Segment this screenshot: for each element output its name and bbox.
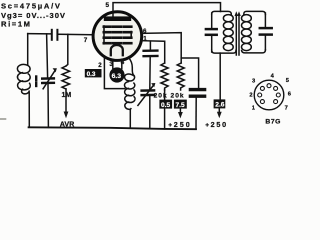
anode plate (104, 16, 131, 21)
ferrite rod dashes (35, 77, 37, 87)
box 7.5 with arrow to +250 (174, 100, 187, 119)
svg-text:0.3: 0.3 (87, 71, 96, 78)
svg-text:7: 7 (285, 106, 288, 112)
grid left frame (103, 26, 105, 44)
socket pin 3 dot (260, 86, 264, 90)
svg-text:250: 250 (174, 120, 190, 129)
svg-text:20k 20k: 20k 20k (154, 92, 184, 99)
wire pin 1 (142, 41, 165, 63)
grid g1 dashes (104, 42, 132, 45)
wire 1M branch from rail (66, 34, 68, 66)
svg-text:+: + (168, 122, 172, 129)
svg-text:Vg3= 0V...-30V: Vg3= 0V...-30V (1, 11, 66, 20)
B7G socket circle (254, 80, 284, 110)
grid g2 dashes (104, 36, 132, 39)
ground rail bottom (29, 127, 196, 129)
capacitor C1 series input (52, 30, 58, 40)
svg-text:5: 5 (106, 2, 110, 9)
svg-text:B7G: B7G (265, 118, 280, 125)
wire grid top rail left (28, 33, 51, 35)
heater circle 6.3 (109, 67, 124, 82)
wire to AVR with arrow (64, 89, 69, 118)
anode lead pin 5 (113, 3, 221, 17)
svg-text:+: + (205, 122, 209, 129)
resistor R3 20k screen (177, 63, 184, 90)
svg-text:2: 2 (98, 62, 102, 69)
grid g3 dashes (104, 31, 132, 34)
svg-text:2.6: 2.6 (215, 102, 224, 109)
variable capacitor C5 oscillator (138, 83, 156, 129)
inductor L1 antenna coil (17, 34, 30, 128)
socket pin 7 dot (274, 100, 278, 104)
resistor R1 1M (62, 66, 70, 89)
wire pin 4 stub (121, 59, 123, 68)
T1 right box bottom rail (242, 50, 266, 53)
socket pin 2 dot (258, 93, 262, 97)
svg-text:6.3: 6.3 (112, 73, 122, 80)
socket pin 5 dot (274, 86, 278, 90)
svg-text:6: 6 (143, 28, 147, 35)
wire varcap C2 branch top (47, 34, 48, 77)
socket pin 4 dot (267, 84, 271, 88)
wire pin 6 screen to R3 (142, 33, 182, 63)
socket pin 6 dot (276, 93, 280, 97)
T1 left box bottom rail (212, 50, 236, 53)
svg-text:Sc=475µA/V: Sc=475µA/V (1, 2, 61, 11)
socket pin 1 dot (260, 100, 264, 104)
cathode (111, 45, 123, 55)
capacitor C3 coupling on pin1 branch (144, 41, 158, 56)
wire C3 to oscillator varcap C5 (149, 56, 151, 89)
capacitor C6 primary tuning (206, 13, 217, 52)
capacitor C7 secondary tuning (260, 13, 272, 50)
wire grid top rail right to pin 7 (58, 33, 92, 36)
wire B+ tap to 2.6 (219, 53, 221, 99)
svg-text:Ri=1M: Ri=1M (1, 20, 30, 29)
svg-text:0.5: 0.5 (161, 102, 170, 109)
wire pin 2 oscillator grid (104, 58, 124, 88)
wire pin 3 stub (112, 60, 114, 68)
box 0.3 (85, 69, 102, 78)
T1 core with arrows (235, 11, 241, 55)
box 2.6 with arrow to +250 (214, 99, 226, 118)
variable capacitor C2 tuning (42, 68, 57, 89)
capacitor C4 screen bypass (190, 90, 204, 130)
wire junction to bypass cap C4 (181, 58, 198, 88)
grid right hooks (130, 32, 132, 39)
wire varcap C2 branch bottom (47, 83, 49, 127)
resistor R2 20k cathode (161, 63, 168, 90)
T1 right box top rail (244, 11, 266, 14)
box 0.5 (159, 90, 172, 129)
inductor L2 oscillator coil (125, 74, 136, 128)
svg-text:250: 250 (211, 120, 227, 129)
svg-text:1: 1 (143, 35, 147, 42)
wire cathode stub to oscillator coil (129, 58, 134, 76)
T1 secondary winding (242, 15, 252, 51)
stray scan mark left edge (0, 118, 6, 120)
T1 primary winding (223, 15, 233, 51)
svg-text:2: 2 (249, 92, 252, 98)
tube V1 envelope (93, 12, 142, 61)
svg-text:7: 7 (84, 37, 88, 44)
IF transformer T1 left box top rail (212, 11, 232, 14)
grid g4 dashes (104, 25, 132, 28)
